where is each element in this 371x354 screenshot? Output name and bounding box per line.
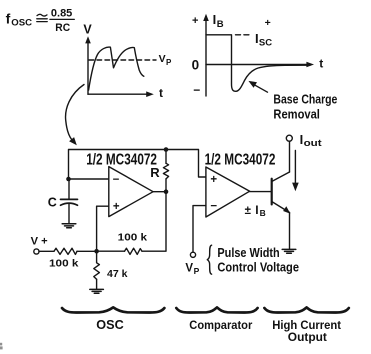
wire: non-inverting input run: [97, 206, 109, 251]
plus-minus IB label: [245, 203, 266, 218]
svg-text:Base Charge: Base Charge: [273, 92, 337, 106]
svg-text:V: V: [159, 53, 166, 65]
svg-text:47 k: 47 k: [107, 268, 128, 280]
svg-text:V: V: [83, 23, 92, 37]
wire: op-amp output to node: [153, 191, 166, 193]
op-amp U1 oscillator: [109, 167, 153, 217]
brace under High Current Output section: [264, 307, 348, 312]
svg-text:1/2 MC34072: 1/2 MC34072: [86, 151, 157, 168]
approx-equal sign: [37, 14, 47, 21]
curved arrow from graph to oscillator: [66, 85, 84, 146]
left graph V axis: [85, 36, 154, 97]
svg-text:Control Voltage: Control Voltage: [217, 261, 299, 275]
wire: top rail (cap node): [69, 150, 206, 180]
terminal Iout: [286, 135, 292, 141]
resistor R: [163, 150, 168, 192]
resistor 100k feedback: [125, 248, 143, 254]
wire: feedback resistor to + node: [97, 250, 125, 252]
op-amp U2 comparator: [206, 167, 250, 217]
fraction bar: [50, 18, 74, 20]
svg-text:I: I: [255, 203, 258, 217]
svg-text:+: +: [192, 15, 198, 27]
Pulse Width Control Voltage text: [217, 246, 299, 274]
svg-text:t: t: [159, 86, 163, 100]
High Current Output label: [272, 318, 341, 344]
svg-text:R: R: [150, 165, 160, 180]
ground under emitter: [282, 249, 296, 253]
svg-text:OSC: OSC: [96, 317, 124, 332]
base current step waveform: [206, 35, 310, 92]
dashed Vp threshold line: [89, 59, 156, 61]
ground under C: [62, 224, 76, 228]
scan artifact left edge: [0, 343, 3, 350]
svg-text:out: out: [304, 138, 322, 148]
terminal V+: [34, 249, 39, 254]
svg-text:±: ±: [245, 205, 252, 217]
svg-text:I: I: [213, 12, 217, 27]
svg-text:+: +: [113, 201, 120, 213]
svg-text:Comparator: Comparator: [189, 318, 252, 332]
svg-text:P: P: [166, 58, 172, 67]
svg-text:−: −: [193, 83, 200, 97]
sawtooth waveform: [89, 47, 144, 90]
wire: inverting input stub: [69, 178, 109, 180]
svg-text:+: +: [210, 174, 217, 186]
svg-text:B: B: [217, 19, 224, 30]
Iout label: [300, 132, 322, 148]
node dot: R top on rail: [164, 147, 169, 152]
wire: V+ to 100k: [39, 250, 54, 252]
svg-text:f: f: [6, 11, 11, 27]
Base Charge Removal text: [273, 92, 337, 121]
wire: comparator output to base: [250, 191, 272, 193]
brace under OSC section: [62, 307, 164, 312]
terminal Vp: [190, 252, 195, 257]
svg-text:RC: RC: [55, 22, 70, 34]
wire: emitter down to ground: [289, 213, 291, 249]
wire: Vp run to inverting input: [193, 206, 206, 253]
Vp label: [185, 263, 199, 276]
svg-text:C: C: [48, 196, 57, 210]
svg-text:Removal: Removal: [273, 108, 320, 122]
resistor 100k input: [54, 248, 77, 254]
ground under 47k: [90, 289, 104, 293]
svg-text:V +: V +: [31, 236, 48, 248]
svg-text:1/2 MC34072: 1/2 MC34072: [205, 151, 276, 168]
Vp label on graph: [159, 53, 172, 67]
Isc label: [255, 17, 272, 48]
svg-text:V: V: [185, 263, 193, 275]
svg-text:Output: Output: [288, 330, 327, 344]
svg-text:P: P: [194, 266, 200, 276]
left graph axis labels V and t: [83, 23, 163, 101]
svg-text:t: t: [319, 56, 323, 70]
dashed Isc level line: [236, 34, 253, 36]
resistor 47k: [94, 251, 100, 289]
svg-text:0.85: 0.85: [51, 7, 72, 19]
node dot: cap / inverting input: [66, 177, 71, 182]
wire: 100k to + node: [77, 250, 97, 252]
svg-text:Pulse Width: Pulse Width: [217, 246, 279, 260]
svg-text:SC: SC: [259, 37, 272, 48]
wire: feedback drop to bottom rail: [142, 192, 166, 252]
svg-text:+: +: [265, 17, 271, 29]
svg-text:100 k: 100 k: [118, 232, 148, 244]
svg-text:0: 0: [192, 58, 200, 73]
Iout current arrow: [292, 151, 299, 192]
transistor Q1: [272, 172, 291, 214]
svg-text:OSC: OSC: [11, 18, 32, 29]
svg-text:100 k: 100 k: [49, 257, 79, 269]
svg-text:−: −: [113, 174, 120, 186]
node dot: output: [164, 189, 169, 194]
formula fOSC = 0.85/RC: [6, 7, 73, 33]
brace under Comparator section: [176, 307, 257, 312]
svg-text:−: −: [210, 201, 217, 213]
svg-text:B: B: [260, 208, 266, 218]
node dot: + input node: [94, 249, 99, 254]
capacitor C: [61, 179, 78, 223]
right graph labels + IB 0 - t: [192, 12, 324, 97]
wire: collector up to Iout: [289, 141, 291, 172]
right graph IB axis: [203, 14, 314, 96]
curly brace: [207, 245, 211, 274]
base charge removal pointer arrow: [248, 81, 267, 92]
